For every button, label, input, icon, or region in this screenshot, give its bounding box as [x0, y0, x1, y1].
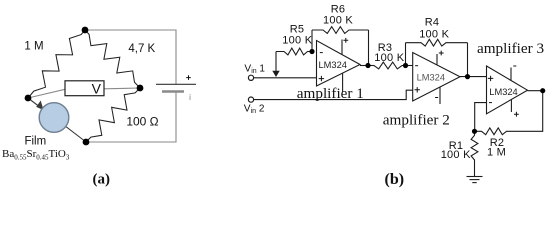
svg-text:Ba0.55Sr0.45TiO3: Ba0.55Sr0.45TiO3 — [2, 148, 70, 161]
svg-text:1 M: 1 M — [487, 146, 506, 158]
svg-text:4,7 K: 4,7 K — [128, 43, 155, 55]
svg-text:LM324: LM324 — [489, 87, 517, 97]
svg-text:(a): (a) — [93, 172, 111, 188]
svg-text:100 K: 100 K — [323, 15, 353, 27]
svg-text:Film: Film — [24, 135, 46, 147]
svg-text:100 K: 100 K — [441, 149, 471, 161]
svg-text:LM324: LM324 — [417, 73, 445, 83]
svg-text:LM324: LM324 — [319, 60, 347, 70]
svg-text:1 M: 1 M — [24, 41, 43, 53]
svg-text:amplifier 2: amplifier 2 — [383, 112, 450, 129]
svg-text:100 K: 100 K — [374, 52, 404, 64]
svg-text:(b): (b) — [385, 171, 405, 188]
svg-text:V: V — [92, 80, 102, 96]
svg-text:i: i — [189, 93, 191, 102]
svg-text:amplifier 1: amplifier 1 — [297, 85, 364, 102]
svg-text:100 K: 100 K — [282, 34, 312, 46]
svg-text:100 K: 100 K — [419, 28, 449, 40]
svg-text:100 Ω: 100 Ω — [126, 115, 158, 129]
svg-text:amplifier 3: amplifier 3 — [477, 40, 544, 57]
svg-text:R4: R4 — [425, 17, 440, 29]
